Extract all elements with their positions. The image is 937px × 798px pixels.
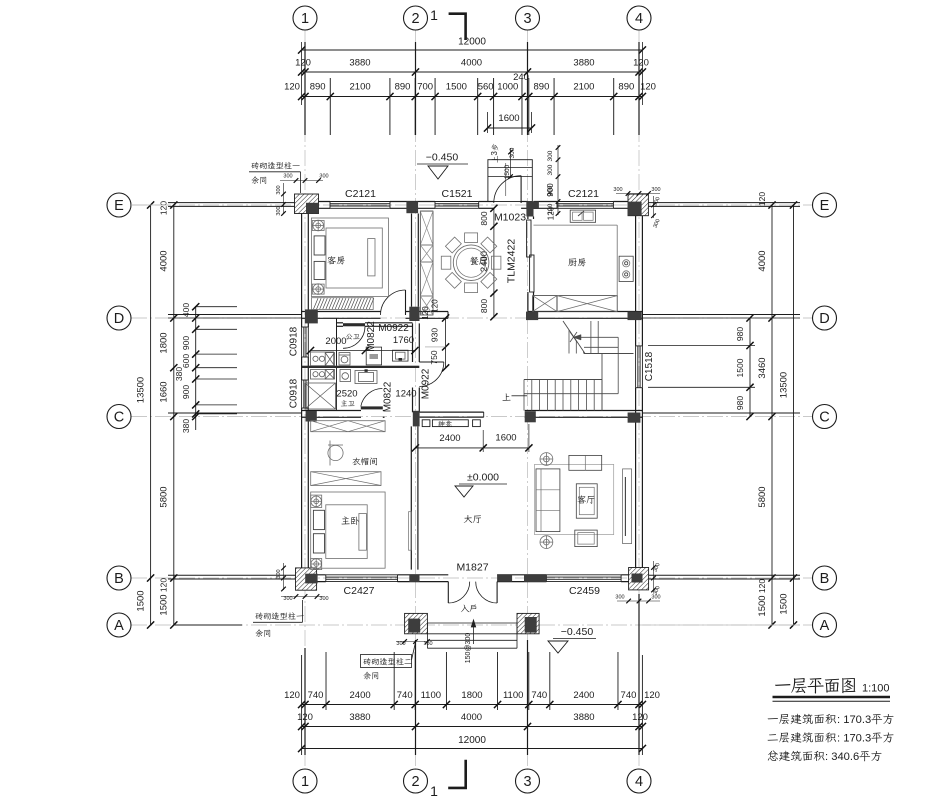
svg-text:E: E xyxy=(820,198,830,214)
decor column brick axis1/E xyxy=(295,194,319,214)
column axis2/D xyxy=(409,307,419,321)
column axis1/C xyxy=(306,411,317,422)
svg-text:5800: 5800 xyxy=(757,486,768,507)
svg-text:3880: 3880 xyxy=(349,58,370,69)
svg-text:120: 120 xyxy=(159,578,169,592)
svg-text:2400: 2400 xyxy=(573,690,594,701)
dimension column mid chain left xyxy=(173,205,175,625)
room label public bath xyxy=(346,334,352,340)
grid axis line E xyxy=(131,204,813,206)
svg-text:D: D xyxy=(114,311,124,327)
entry steps xyxy=(427,622,517,624)
svg-text:120: 120 xyxy=(159,201,169,215)
living room sofa long xyxy=(536,469,560,532)
svg-text:900: 900 xyxy=(181,336,191,350)
svg-text:1500: 1500 xyxy=(159,594,170,615)
svg-text:2400: 2400 xyxy=(439,433,460,444)
svg-text:4: 4 xyxy=(635,774,643,790)
svg-text:−0.450: −0.450 xyxy=(426,152,459,164)
public bath toilet xyxy=(339,353,350,366)
stairs mid landing xyxy=(601,354,603,411)
stairs lower flight xyxy=(524,379,602,381)
label entry xyxy=(461,605,469,612)
svg-text:B: B xyxy=(820,571,830,587)
window C2121 left (E wall) xyxy=(330,201,390,203)
svg-text:1: 1 xyxy=(430,7,438,23)
wall E exterior xyxy=(302,201,330,203)
grid axis line 4 xyxy=(638,30,640,770)
svg-text:4000: 4000 xyxy=(757,250,768,271)
wall west exterior (axis1) xyxy=(301,205,303,327)
grid axis line C xyxy=(131,416,813,418)
svg-text:: 170.3: : 170.3 xyxy=(837,714,871,726)
svg-text:120: 120 xyxy=(632,712,648,723)
room label master bath xyxy=(341,400,347,406)
svg-text:M0822: M0822 xyxy=(366,321,377,352)
svg-text:1: 1 xyxy=(301,774,309,790)
column axis4/E + decor xyxy=(628,194,648,216)
svg-text:300: 300 xyxy=(613,187,622,193)
dining chairs xyxy=(465,233,478,243)
bath partition vertical xyxy=(336,318,338,365)
svg-text:1500: 1500 xyxy=(735,358,745,377)
svg-text:300: 300 xyxy=(509,147,516,158)
porch column A/axis3 xyxy=(517,613,539,633)
axis bubble 3 top xyxy=(516,6,540,30)
svg-text:12000: 12000 xyxy=(458,735,486,746)
door M0822 (public bath) xyxy=(343,323,365,326)
grid axis line A xyxy=(131,624,813,626)
svg-text:1800: 1800 xyxy=(159,332,170,353)
svg-text:M1023: M1023 xyxy=(494,212,526,224)
axis bubble 1 bottom xyxy=(293,769,317,793)
column axis2/E xyxy=(406,201,418,213)
window C1521 (E wall) xyxy=(435,201,479,203)
svg-text:M0922: M0922 xyxy=(378,323,409,334)
svg-text:740: 740 xyxy=(308,690,324,701)
door M1023 (E wall, dining back door) xyxy=(520,176,522,203)
room label kitchen xyxy=(568,258,577,266)
dimension extension lines bottom xyxy=(325,652,327,710)
stairs direction arrow xyxy=(573,336,618,338)
bath dimension 2000/1760 xyxy=(311,350,415,352)
svg-text:1240: 1240 xyxy=(395,389,416,400)
svg-text:3880: 3880 xyxy=(573,712,594,723)
closet dresser with stool xyxy=(328,445,343,460)
svg-text:: 340.6: : 340.6 xyxy=(825,751,859,763)
svg-text:900: 900 xyxy=(546,183,555,197)
svg-text:120: 120 xyxy=(284,82,300,93)
svg-text:3880: 3880 xyxy=(573,58,594,69)
svg-text:C1521: C1521 xyxy=(442,188,473,200)
wall axis2 C-B (bedroom east) xyxy=(410,426,412,569)
stairs upper flight xyxy=(568,330,570,354)
note brick decor column 1 (bottom-left) xyxy=(255,612,263,619)
svg-text:120: 120 xyxy=(633,58,649,69)
svg-text:C2121: C2121 xyxy=(345,188,376,200)
svg-text:4: 4 xyxy=(635,11,643,27)
svg-text:930: 930 xyxy=(430,328,440,342)
living room lamps xyxy=(540,453,553,466)
dimension 2400/1600 shrine xyxy=(415,447,529,449)
dimension row 120/3880/4000/3880/120 top xyxy=(302,71,643,73)
living room bench top xyxy=(569,455,602,470)
master bedroom TV board xyxy=(409,512,412,551)
kitchen counter xyxy=(534,224,618,226)
svg-text:C0918: C0918 xyxy=(289,326,300,356)
room label dining xyxy=(470,257,479,265)
sliding door TLM2422 xyxy=(527,220,531,257)
corridor dimension 930/750 xyxy=(445,318,447,368)
master bed xyxy=(311,492,385,568)
svg-text:4000: 4000 xyxy=(461,58,482,69)
grid axis line 2 xyxy=(415,30,417,770)
wall axis2 E-D (guest/dining) xyxy=(411,214,413,307)
svg-text:300: 300 xyxy=(276,569,282,578)
svg-text:12000: 12000 xyxy=(458,37,486,48)
dimension row detail top xyxy=(302,96,643,98)
guest room bedside tables with lamps xyxy=(312,221,324,231)
axis bubble C left xyxy=(107,405,131,429)
svg-text:300: 300 xyxy=(276,185,282,194)
svg-text:300: 300 xyxy=(651,187,660,193)
bath partition upper with door xyxy=(337,322,343,324)
axis bubble D right xyxy=(813,306,837,330)
note brick decor column 2 (bottom-middle) xyxy=(361,655,412,668)
svg-text:1500: 1500 xyxy=(779,593,790,614)
svg-text:300: 300 xyxy=(319,596,328,602)
area note line 2 xyxy=(768,734,778,741)
svg-text:740: 740 xyxy=(621,690,637,701)
column axis3/B xyxy=(524,574,546,582)
svg-text:300: 300 xyxy=(615,595,624,601)
svg-text:M1827: M1827 xyxy=(456,562,488,574)
svg-text:380: 380 xyxy=(181,419,191,433)
svg-text:1600: 1600 xyxy=(495,432,516,443)
column axis3/C xyxy=(525,411,536,422)
public bath washbasin xyxy=(393,350,409,361)
svg-text:M0922: M0922 xyxy=(421,368,432,399)
label up (stairs) xyxy=(502,393,510,400)
axis bubble B left xyxy=(107,566,131,590)
living room coffee table xyxy=(576,484,597,518)
wall axis2 D-C (bath east) xyxy=(412,323,414,362)
svg-text:240: 240 xyxy=(513,72,529,83)
back porch steps xyxy=(488,160,532,202)
dimension column detail chain left (D-C) xyxy=(195,306,197,430)
svg-text:300: 300 xyxy=(547,164,554,175)
svg-text:300: 300 xyxy=(547,150,554,161)
room label closet xyxy=(352,458,360,465)
title first floor plan xyxy=(775,684,790,686)
svg-text:13500: 13500 xyxy=(779,372,790,398)
door M0922 (bath east wall) xyxy=(419,361,444,363)
svg-text:1:100: 1:100 xyxy=(862,683,890,695)
svg-text:1100: 1100 xyxy=(421,690,441,701)
public bath counter with sinks xyxy=(311,352,334,366)
wall C xyxy=(302,410,361,412)
axis bubble C right xyxy=(813,405,837,429)
svg-text:2: 2 xyxy=(411,774,419,790)
svg-text:1500: 1500 xyxy=(757,595,768,616)
svg-text:3: 3 xyxy=(490,151,499,156)
area note line 1 xyxy=(768,718,778,719)
note brick decor column 1 (top-left) xyxy=(251,162,259,169)
dining round table xyxy=(453,245,489,281)
master bath shower stall X xyxy=(305,383,336,409)
svg-text:D: D xyxy=(819,311,829,327)
svg-text:740: 740 xyxy=(531,690,547,701)
area note line 3 xyxy=(768,751,778,761)
axis bubble E right xyxy=(813,193,837,217)
svg-text:2: 2 xyxy=(411,11,419,27)
grid axis line 3 xyxy=(527,30,529,770)
svg-text:300: 300 xyxy=(283,596,292,602)
axis bubble B right xyxy=(813,566,837,590)
dimension column mid chain right xyxy=(771,205,773,625)
master bath counter with sinks xyxy=(311,370,334,380)
axis bubble 3 bottom xyxy=(516,769,540,793)
label up-3-steps xyxy=(490,144,499,163)
living room stool xyxy=(575,530,597,547)
svg-text:2000: 2000 xyxy=(325,336,346,347)
window C0918 lower (west wall) xyxy=(301,380,303,408)
svg-text:TLM2422: TLM2422 xyxy=(506,239,518,284)
column axis4/D xyxy=(628,312,642,321)
svg-text:1760: 1760 xyxy=(393,335,414,346)
svg-text:3: 3 xyxy=(523,774,531,790)
column axis2/B xyxy=(409,574,419,582)
kitchen sink xyxy=(570,210,595,222)
svg-text:1600: 1600 xyxy=(498,113,519,124)
wall east exterior (axis4) xyxy=(635,205,637,346)
grid axis line B xyxy=(131,577,813,579)
closet wardrobe top (X box) xyxy=(311,421,385,432)
svg-text:C: C xyxy=(819,410,829,426)
bath partition horizontal mid xyxy=(302,366,420,368)
shrine platform (C axis) xyxy=(420,411,484,413)
title underline double xyxy=(773,696,891,699)
svg-text:2100: 2100 xyxy=(573,82,594,93)
living room TV cabinet xyxy=(623,469,632,544)
dimension row 120/3880/4000/3880/120 bottom xyxy=(302,726,643,728)
svg-text:1100: 1100 xyxy=(503,690,523,701)
svg-text:4000: 4000 xyxy=(159,250,170,271)
svg-text:980: 980 xyxy=(735,396,745,410)
svg-text:C: C xyxy=(114,410,124,426)
axis bubble A left xyxy=(107,613,131,637)
master bath toilet xyxy=(340,370,351,382)
svg-text:1: 1 xyxy=(301,11,309,27)
svg-text:3880: 3880 xyxy=(349,712,370,723)
svg-text:−0.450: −0.450 xyxy=(561,626,594,638)
svg-text:150@300: 150@300 xyxy=(465,633,472,664)
svg-text:560: 560 xyxy=(478,82,494,93)
washing machine xyxy=(366,347,381,365)
svg-text:890: 890 xyxy=(618,82,634,93)
window C2459 (B wall) xyxy=(546,574,621,576)
svg-text:120: 120 xyxy=(421,306,430,320)
svg-text:1800: 1800 xyxy=(461,690,482,701)
grid axis line 1 xyxy=(304,30,306,770)
svg-text:980: 980 xyxy=(735,327,745,341)
svg-text:2100: 2100 xyxy=(350,82,371,93)
guest room bed xyxy=(311,218,388,297)
svg-text:2520: 2520 xyxy=(336,389,357,400)
guest room rug (hatched) xyxy=(311,298,373,310)
window C2427 (B wall) xyxy=(326,574,398,576)
wall axis3 E-D (dining/kitchen) xyxy=(527,217,529,220)
axis bubble A right xyxy=(813,613,837,637)
svg-text:C1518: C1518 xyxy=(644,351,655,381)
svg-text:A: A xyxy=(820,618,830,634)
svg-text:900: 900 xyxy=(181,385,191,399)
axis bubble 4 bottom xyxy=(627,769,651,793)
dining cabinet (axis2) xyxy=(420,211,433,315)
closet hatch boxes below counters xyxy=(336,368,338,411)
dimension row 12000 top xyxy=(302,49,643,51)
kitchen cabinets bottom (X boxes) xyxy=(533,296,557,312)
svg-text:120: 120 xyxy=(644,690,660,701)
master bath shower/tub xyxy=(355,371,377,384)
svg-text:3: 3 xyxy=(523,11,531,27)
entry double door M1827 xyxy=(447,582,449,603)
column axis1/D xyxy=(305,309,318,323)
window C1518 (east wall) xyxy=(635,346,637,388)
svg-text:C2459: C2459 xyxy=(569,585,600,597)
svg-text:120: 120 xyxy=(431,299,440,313)
svg-text:B: B xyxy=(114,571,124,587)
svg-text:C2121: C2121 xyxy=(568,188,599,200)
axis bubble 2 bottom xyxy=(404,769,428,793)
svg-text:1660: 1660 xyxy=(159,381,170,402)
svg-text:890: 890 xyxy=(310,82,326,93)
svg-text:: 170.3: : 170.3 xyxy=(837,733,871,745)
svg-text:±0.000: ±0.000 xyxy=(467,472,499,484)
column axis1/E xyxy=(306,203,319,213)
window C2121 right (E wall) xyxy=(557,201,613,203)
svg-text:120: 120 xyxy=(547,206,556,220)
window C0918 upper (west wall) xyxy=(301,327,303,357)
svg-text:300: 300 xyxy=(276,206,282,215)
axis bubble D left xyxy=(107,306,131,330)
room label hall xyxy=(464,515,473,523)
dimension row detail bottom xyxy=(302,704,643,706)
room label living xyxy=(577,495,586,503)
column axis2/C xyxy=(413,411,420,427)
kitchen stove xyxy=(619,256,633,281)
svg-text:M0822: M0822 xyxy=(383,381,394,412)
svg-text:3460: 3460 xyxy=(757,357,768,378)
dining dimension 800/2400/800 xyxy=(493,208,495,316)
svg-text:A: A xyxy=(114,618,124,634)
svg-text:600: 600 xyxy=(181,354,191,368)
room label guest xyxy=(327,256,336,264)
svg-text:1500: 1500 xyxy=(136,590,147,611)
porch column A/axis2 xyxy=(405,613,428,633)
svg-text:300: 300 xyxy=(283,174,292,180)
living room rug xyxy=(535,464,614,534)
column axis4/C xyxy=(628,413,641,423)
extension lines right xyxy=(648,202,800,204)
svg-text:300: 300 xyxy=(651,595,660,601)
svg-text:120: 120 xyxy=(284,690,300,701)
svg-text:750: 750 xyxy=(429,350,439,364)
svg-text:5800: 5800 xyxy=(159,486,170,507)
svg-text:380: 380 xyxy=(174,367,184,381)
room label master bedroom xyxy=(341,516,349,524)
svg-text:120: 120 xyxy=(295,58,311,69)
svg-text:740: 740 xyxy=(397,690,413,701)
wall B exterior xyxy=(302,574,326,576)
svg-text:1000: 1000 xyxy=(497,82,518,93)
svg-text:890: 890 xyxy=(534,82,550,93)
axis bubble 2 top xyxy=(404,6,428,30)
svg-text:C2427: C2427 xyxy=(344,585,375,597)
extension lines left xyxy=(196,306,237,308)
axis bubble 1 top xyxy=(293,6,317,30)
decor column brick axis4/B xyxy=(629,568,649,590)
wall pier right of entry door xyxy=(497,575,512,582)
svg-text:700: 700 xyxy=(417,82,433,93)
dimension row 12000 bottom xyxy=(302,748,643,750)
svg-text:C0918: C0918 xyxy=(289,378,300,408)
svg-text:13500: 13500 xyxy=(136,377,147,403)
svg-text:180: 180 xyxy=(423,641,432,647)
stairs handrail xyxy=(524,393,618,395)
svg-text:4000: 4000 xyxy=(461,712,482,723)
dimension column 13500 left xyxy=(150,205,152,625)
small dim 1500/300 at porch xyxy=(510,148,512,178)
dimension column 13500 right xyxy=(793,205,795,625)
svg-text:890: 890 xyxy=(395,82,411,93)
svg-text:2400: 2400 xyxy=(350,690,371,701)
master bedside tables with lamps xyxy=(311,495,322,507)
svg-text:1500: 1500 xyxy=(446,82,467,93)
column axis3/E xyxy=(526,201,539,208)
svg-text:120: 120 xyxy=(757,192,767,206)
svg-text:800: 800 xyxy=(479,211,489,225)
svg-text:800: 800 xyxy=(479,299,489,313)
dimension 1600 top xyxy=(488,127,532,129)
closet wardrobe mid (X box) xyxy=(311,472,381,486)
small dim 300/300/900/120 right of porch xyxy=(557,145,559,215)
svg-text:1: 1 xyxy=(430,783,438,798)
stairs break line xyxy=(563,321,585,354)
column axis3/D xyxy=(526,312,538,321)
dimension column detail chain right (D-C) xyxy=(749,318,751,417)
decor column brick axis1/B xyxy=(296,568,317,590)
door M0822 (master bath) xyxy=(361,406,383,409)
svg-text:1500: 1500 xyxy=(504,164,511,179)
grid axis line D xyxy=(131,317,813,319)
door M0922 (guest room, D wall) xyxy=(405,290,407,315)
wall D xyxy=(302,311,381,313)
svg-text:E: E xyxy=(114,198,124,214)
svg-text:120: 120 xyxy=(757,579,767,593)
axis bubble E left xyxy=(107,193,131,217)
axis bubble 4 top xyxy=(627,6,651,30)
dimension extension lines top xyxy=(329,78,331,135)
